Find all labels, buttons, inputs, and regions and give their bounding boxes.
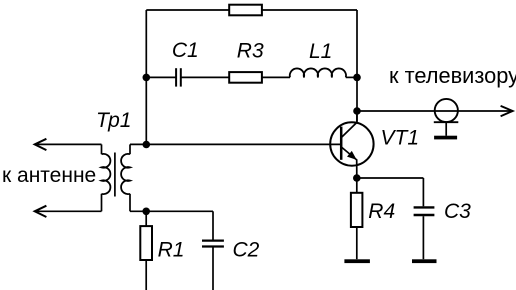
resistor R4 — [351, 193, 363, 227]
connector shield stem — [445, 123, 447, 136]
svg-text:к телевизору: к телевизору — [389, 63, 516, 88]
node junction L1/right rail — [353, 74, 361, 82]
emitter arrowhead — [347, 151, 357, 160]
wire C3 top lead — [422, 178, 424, 206]
capacitor C2 — [202, 241, 224, 247]
arrow to antenna top — [35, 139, 47, 150]
transformer Tp1 — [102, 144, 131, 211]
wire C2 bottom lead — [212, 248, 214, 290]
left winding stub bottom — [101, 194, 103, 212]
wire node A row: transformer to transistor base — [130, 143, 340, 145]
node junction C1/left rail — [143, 74, 151, 82]
wire node B row: arrow to transformer — [35, 210, 102, 212]
wire top rail — [146, 9, 357, 11]
wire R4 top lead — [356, 178, 358, 193]
svg-text:R1: R1 — [158, 239, 185, 262]
svg-text:R3: R3 — [237, 40, 264, 63]
core — [114, 153, 116, 197]
wire right rail — [356, 10, 358, 122]
svg-text:C1: C1 — [172, 39, 199, 62]
body circle — [330, 122, 373, 165]
right winding stub top — [129, 144, 131, 154]
capacitor C3 — [414, 207, 435, 215]
arrow to TV — [501, 106, 513, 116]
wire C3 bottom lead — [422, 216, 424, 259]
resistor R1 — [140, 226, 152, 260]
wire C2 top lead — [212, 211, 214, 239]
wire L1 to right rail — [346, 76, 357, 78]
wire node B row: transformer to C2 — [130, 210, 213, 212]
svg-text:C3: C3 — [444, 200, 471, 223]
wire R1 bottom lead — [145, 260, 147, 290]
node output junction — [353, 107, 361, 115]
capacitor C1 — [176, 68, 181, 86]
right winding stub bottom — [129, 194, 131, 212]
collector lead — [341, 111, 357, 138]
inductor L1 — [290, 68, 346, 77]
svg-text:R4: R4 — [368, 200, 395, 223]
base bar — [340, 127, 343, 160]
wire R4 bottom lead — [356, 227, 358, 259]
svg-text:к антенне: к антенне — [2, 164, 96, 187]
node B junction — [142, 208, 150, 216]
svg-text:C2: C2 — [233, 239, 260, 262]
ground connector — [434, 136, 457, 140]
svg-text:Тр1: Тр1 — [96, 109, 132, 132]
connector XW1 circle — [435, 99, 458, 122]
left winding — [102, 154, 111, 194]
wire emitter node to C3 — [357, 177, 424, 179]
ground C3 — [412, 259, 437, 263]
transistor VT1 — [330, 111, 373, 178]
resistor R2 (top, unlabeled) — [229, 5, 262, 16]
node emitter junction — [353, 174, 361, 182]
resistor R3 — [229, 72, 262, 83]
arrow to antenna bottom — [35, 206, 47, 217]
node A junction — [143, 141, 151, 149]
wire output to arrow — [357, 110, 512, 112]
connector shield line — [434, 121, 459, 123]
svg-text:L1: L1 — [309, 40, 332, 63]
ground R4 — [344, 259, 370, 263]
left winding stub top — [101, 144, 103, 154]
wire left rail — [145, 10, 147, 145]
wire row C1-R3 — [146, 76, 176, 78]
emitter lead — [341, 147, 357, 178]
svg-text:VT1: VT1 — [381, 126, 420, 149]
wire R1 top lead — [145, 211, 147, 226]
right winding — [121, 154, 130, 194]
wire node A row: arrow to transformer — [35, 143, 102, 145]
